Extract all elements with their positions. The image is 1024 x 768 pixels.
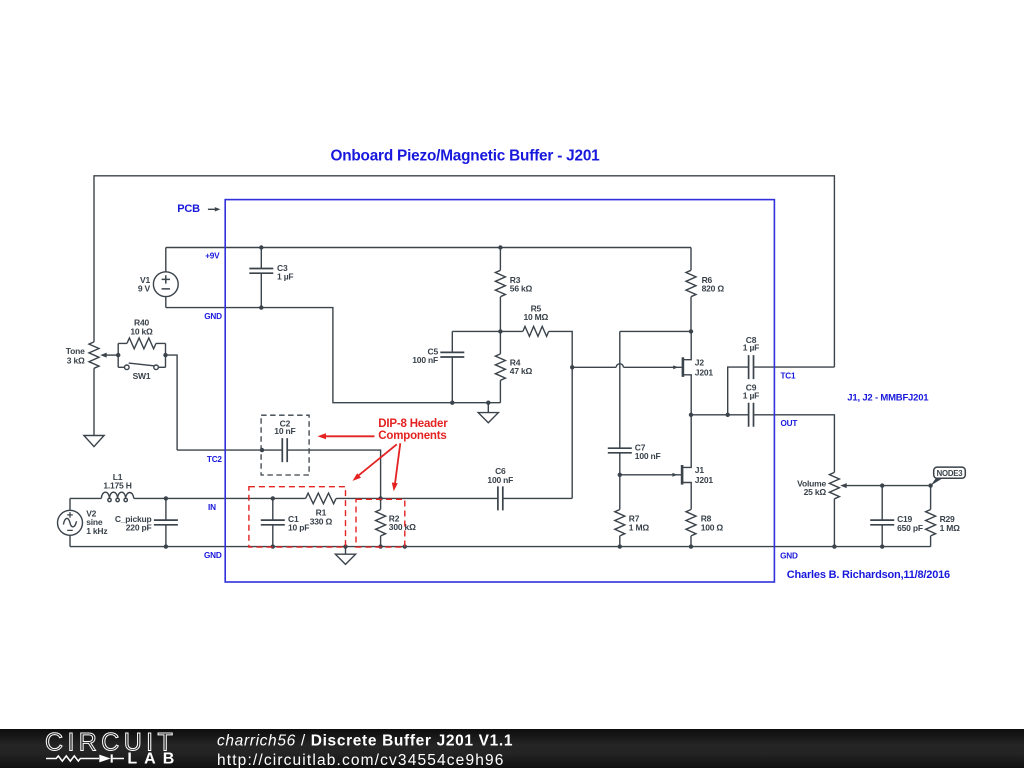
- wire C7 node to R6 bottom: [620, 330, 691, 332]
- svg-text:NODE3: NODE3: [937, 469, 964, 478]
- label J2: [695, 358, 705, 368]
- capacitor C2: [282, 438, 287, 462]
- label R8: [701, 514, 712, 524]
- capacitor C19: [870, 486, 894, 547]
- arrowhead J2 gate: [673, 365, 678, 369]
- flag NODE3: [931, 467, 966, 486]
- switch SW1: [118, 363, 165, 370]
- wire C2 right: [287, 450, 380, 498]
- label 1.175 H: [103, 481, 131, 491]
- CircuitLab logo LAB: [127, 751, 181, 768]
- label 10 kOhm: [130, 326, 153, 336]
- node C19 top: [880, 483, 884, 487]
- node OUT J-junction: [689, 413, 693, 417]
- svg-text:100 nF: 100 nF: [635, 451, 661, 461]
- potentiometer Tone 3k (body): [89, 342, 99, 368]
- label R5: [531, 303, 542, 313]
- arrowhead J1 gate: [672, 473, 677, 477]
- red arrow to box1: [353, 444, 397, 481]
- label R3: [510, 275, 521, 285]
- label 100 nF: [412, 355, 438, 365]
- label R2: [389, 513, 400, 523]
- wire Tone bottom: [93, 368, 95, 435]
- svg-text:1 µF: 1 µF: [743, 390, 759, 400]
- node IN-TC2-R2: [378, 496, 382, 500]
- svg-text:Onboard Piezo/Magnetic Buffer: Onboard Piezo/Magnetic Buffer - J201: [330, 147, 600, 164]
- label 650 pF: [897, 523, 923, 533]
- svg-text:J201: J201: [695, 367, 714, 377]
- node gnd R8: [689, 544, 693, 548]
- node gnd C1: [271, 544, 275, 548]
- label C3: [277, 263, 288, 273]
- note author: [787, 569, 950, 581]
- node gnd seg: [403, 544, 407, 548]
- label 1 uF: [277, 272, 293, 282]
- label 220 pF: [126, 522, 152, 532]
- svg-text:GND: GND: [204, 312, 222, 321]
- svg-text:TC2: TC2: [207, 455, 223, 464]
- title: [330, 147, 600, 164]
- svg-text:charrich56 / Discrete Buffer J: charrich56 / Discrete Buffer J201 V1.1: [217, 732, 513, 749]
- wire R5 right riser: [549, 331, 573, 498]
- svg-text:OUT: OUT: [781, 419, 798, 428]
- svg-text:TC1: TC1: [781, 372, 797, 381]
- capacitor C9: [749, 403, 754, 427]
- capacitor C_pickup: [154, 498, 178, 546]
- label L1: [113, 472, 123, 482]
- net label GND top: [204, 312, 222, 321]
- svg-text:DIP-8 Header: DIP-8 Header: [378, 418, 448, 430]
- CircuitLab logo CIRCUIT: [45, 729, 177, 757]
- svg-text:1.175 H: 1.175 H: [103, 481, 131, 491]
- resistor R1: [306, 493, 337, 504]
- node C3 bottom: [259, 305, 263, 309]
- svg-text:SW1: SW1: [133, 371, 151, 381]
- label C9: [746, 383, 757, 393]
- node Tone-R40: [116, 353, 120, 357]
- svg-text:Charles B. Richardson,11/8/201: Charles B. Richardson,11/8/2016: [787, 569, 950, 581]
- net label TC1: [781, 372, 797, 381]
- label 100 nF (C7): [635, 451, 661, 461]
- red dashed box C1-R1: [249, 487, 346, 547]
- svg-text:330 Ω: 330 Ω: [310, 517, 333, 527]
- label R40: [134, 318, 149, 328]
- wire R40-SW1 left stub: [117, 343, 119, 367]
- svg-text:IN: IN: [208, 503, 216, 512]
- label C6: [495, 466, 506, 476]
- svg-text:+9V: +9V: [205, 252, 220, 261]
- label SW1: [133, 371, 151, 381]
- resistor R40 (body): [118, 338, 165, 349]
- wire +9V rail: [166, 247, 691, 249]
- svg-text:1 kHz: 1 kHz: [86, 526, 107, 536]
- svg-text:25 kΩ: 25 kΩ: [804, 487, 827, 497]
- voltage source V1 (circle): [153, 248, 178, 308]
- svg-text:J201: J201: [695, 475, 714, 485]
- node C1 top: [271, 496, 275, 500]
- label 100 Ohm (R8): [701, 523, 724, 533]
- wire TC1 right: [754, 366, 835, 368]
- note J1 J2 MMBFJ201: [847, 393, 929, 404]
- net label GND right: [780, 552, 798, 561]
- label C1: [288, 514, 299, 524]
- label C19: [897, 514, 912, 524]
- label R6: [702, 275, 713, 285]
- resistor R7: [615, 475, 625, 547]
- capacitor C5: [440, 331, 464, 402]
- red note line2: [378, 430, 446, 442]
- node R3 top: [498, 245, 502, 249]
- svg-text:220 pF: 220 pF: [126, 522, 152, 532]
- capacitor C3: [249, 248, 273, 308]
- inductor L1: [101, 492, 133, 502]
- label 820 Ohm: [702, 284, 725, 294]
- footer url: [217, 752, 505, 768]
- label V1: [140, 275, 150, 285]
- red arrow to C2: [318, 433, 375, 439]
- node J2 drain: [689, 329, 693, 333]
- resistor R8: [686, 510, 696, 547]
- label 100 nF (C6): [487, 475, 513, 485]
- label J1: [695, 465, 705, 475]
- node R40 right: [163, 353, 167, 357]
- wire V1 gnd to R4 bottom: [166, 308, 501, 403]
- svg-text:3 kΩ: 3 kΩ: [67, 356, 85, 366]
- svg-text:650 pF: 650 pF: [897, 523, 923, 533]
- wire C6 right: [503, 497, 572, 499]
- svg-text:820 Ω: 820 Ω: [702, 284, 725, 294]
- label Volume: [797, 478, 826, 488]
- node gnd R2: [378, 544, 382, 548]
- wire OUT left: [691, 414, 749, 416]
- wire J2 gate w/ hop: [572, 364, 682, 368]
- node gnd R7: [618, 544, 622, 548]
- PCB boundary box: [225, 200, 774, 582]
- wire C8 riser: [728, 367, 749, 415]
- node C8 branch: [726, 413, 730, 417]
- node C5 bottom: [450, 401, 454, 405]
- net label IN: [208, 503, 216, 512]
- node gate J2 tee: [570, 365, 574, 369]
- wire SW1 to TC2: [166, 355, 178, 450]
- label PCB: [177, 203, 200, 215]
- label V2: [86, 508, 96, 518]
- wire R1 to C6: [336, 497, 498, 499]
- label 10 MOhm: [523, 312, 548, 322]
- node NODE3 junction: [928, 483, 932, 487]
- dashed box C2: [261, 415, 309, 475]
- svg-text:GND: GND: [204, 551, 222, 560]
- label J201 (J2): [695, 367, 714, 377]
- wire bias node horizontal: [452, 330, 523, 332]
- potentiometer Tone wiper arrow: [100, 353, 118, 358]
- node gnd sym: [343, 544, 347, 548]
- capacitor C1: [261, 498, 285, 546]
- svg-text:J1, J2 - MMBFJ201: J1, J2 - MMBFJ201: [847, 393, 929, 404]
- label 1 kHz: [86, 526, 107, 536]
- svg-text:9 V: 9 V: [138, 283, 151, 293]
- label 25 kOhm: [804, 487, 827, 497]
- label C2: [280, 419, 291, 429]
- node gnd C19: [880, 544, 884, 548]
- label Tone: [66, 346, 85, 356]
- label 1 MOhm (R29): [940, 523, 961, 533]
- potentiometer Volume (body): [829, 472, 839, 546]
- label C5: [428, 346, 439, 356]
- svg-text:10 nF: 10 nF: [274, 426, 295, 436]
- svg-text:100 nF: 100 nF: [487, 475, 513, 485]
- label 1 uF (C9): [743, 390, 759, 400]
- svg-text:1 µF: 1 µF: [743, 343, 759, 353]
- svg-text:PCB: PCB: [177, 203, 200, 215]
- arrow PCB: [208, 207, 221, 211]
- capacitor C6: [498, 486, 503, 510]
- resistor R3: [495, 248, 505, 332]
- svg-text:100 Ω: 100 Ω: [701, 523, 724, 533]
- label 56 kOhm: [510, 284, 533, 294]
- svg-text:300 kΩ: 300 kΩ: [389, 522, 416, 532]
- svg-text:47 kΩ: 47 kΩ: [510, 366, 533, 376]
- resistor R29: [926, 486, 936, 547]
- transistor J1 (JFET): [682, 415, 691, 510]
- svg-text:J1: J1: [695, 465, 705, 475]
- label C7: [635, 442, 646, 452]
- svg-text:GND: GND: [780, 552, 798, 561]
- node TC2 C2: [260, 448, 264, 452]
- svg-text:LAB: LAB: [127, 751, 181, 768]
- ground under R4 rail: [478, 403, 498, 423]
- node C7 bottom: [618, 473, 622, 477]
- svg-text:J2: J2: [695, 358, 705, 368]
- capacitor C8: [749, 355, 754, 379]
- potentiometer Volume wiper: [840, 483, 930, 488]
- net label GND left: [204, 551, 222, 560]
- net label TC2: [207, 455, 223, 464]
- svg-text:Components: Components: [378, 430, 446, 442]
- label R7: [629, 514, 640, 524]
- svg-text:10 pF: 10 pF: [288, 522, 309, 532]
- label 330 Ohm: [310, 517, 333, 527]
- voltage source V2 (circle): [58, 498, 83, 546]
- label 1 MOhm (R7): [629, 523, 650, 533]
- wire V2 to L1: [70, 497, 101, 499]
- svg-text:56 kΩ: 56 kΩ: [510, 284, 533, 294]
- label 1 uF (C8): [743, 343, 759, 353]
- transistor J2 (JFET): [683, 331, 691, 414]
- label J201 (J1): [695, 475, 714, 485]
- red note line1: [378, 418, 448, 430]
- svg-text:10 kΩ: 10 kΩ: [130, 326, 153, 336]
- wire J1 gate: [620, 474, 681, 476]
- CircuitLab logo squiggle resistor-diode: [46, 754, 124, 762]
- wire TC2: [177, 449, 282, 451]
- node C3 top: [259, 245, 263, 249]
- label 10 pF: [288, 522, 309, 532]
- label 47 kOhm: [510, 366, 533, 376]
- label 9 V: [138, 283, 151, 293]
- ground under Tone: [84, 436, 104, 447]
- label C8: [746, 335, 757, 345]
- label C_pickup: [115, 514, 152, 524]
- label R1: [316, 508, 327, 518]
- node gnd V2cap: [164, 544, 168, 548]
- node Cpickup top: [164, 496, 168, 500]
- label R29: [940, 514, 955, 524]
- capacitor C7: [608, 331, 632, 474]
- red arrow to box2: [392, 443, 401, 491]
- wire GND rail: [70, 546, 931, 548]
- red dashed box R2: [356, 499, 405, 547]
- label 3 kOhm: [67, 356, 85, 366]
- wire R40-SW1 right stub: [165, 343, 167, 367]
- svg-text:1 µF: 1 µF: [277, 272, 293, 282]
- resistor R4: [495, 331, 505, 402]
- node bias: [498, 329, 502, 333]
- label sine: [86, 517, 103, 527]
- node gnd Vol: [832, 544, 836, 548]
- label 300 kOhm: [389, 522, 416, 532]
- svg-text:1 MΩ: 1 MΩ: [629, 523, 650, 533]
- svg-text:100 nF: 100 nF: [412, 355, 438, 365]
- wire L1 to R1: [134, 497, 306, 499]
- resistor R6: [686, 248, 696, 332]
- resistor R5: [523, 326, 549, 336]
- label R4: [510, 357, 521, 367]
- svg-text:http://circuitlab.com/cv34554c: http://circuitlab.com/cv34554ce9h96: [217, 752, 505, 768]
- svg-text:10 MΩ: 10 MΩ: [523, 312, 548, 322]
- net label +9V: [205, 252, 220, 261]
- net label OUT: [781, 419, 798, 428]
- node gnd tap: [486, 401, 490, 405]
- footer title: [217, 732, 513, 749]
- svg-text:1 MΩ: 1 MΩ: [940, 523, 961, 533]
- wire OUT right: [754, 415, 835, 473]
- ground symbol main: [335, 547, 355, 565]
- wire outer loop (Tone top / TC1 top rail): [94, 176, 834, 367]
- label 10 nF: [274, 426, 295, 436]
- resistor R2: [376, 498, 386, 546]
